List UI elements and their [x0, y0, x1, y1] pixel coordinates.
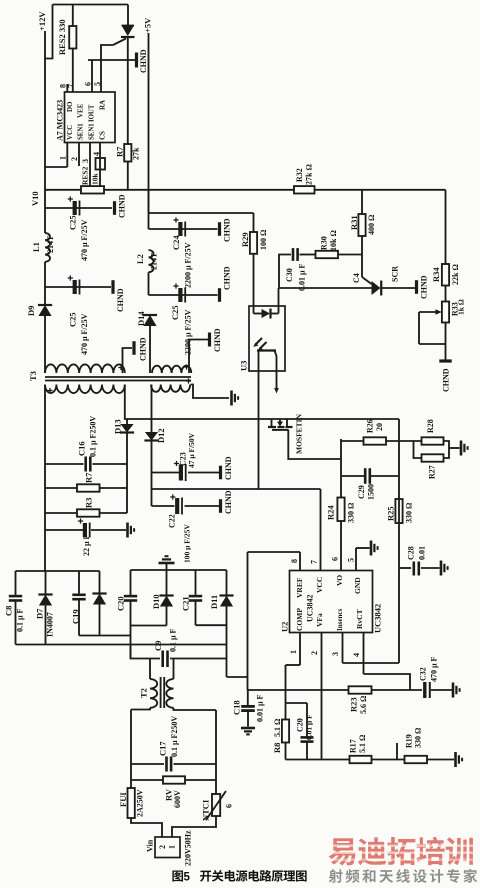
wire winding3 right down: [125, 385, 127, 425]
resistor R7 27k: [115, 144, 141, 162]
svg-text:C9: C9: [153, 641, 163, 651]
svg-text:C8: C8: [4, 606, 14, 616]
wire L1 to C25b node: [44, 262, 46, 305]
pin names bottom row MC3423: [66, 123, 107, 140]
thyristor C4 SCR: [352, 266, 400, 296]
capacitor C19: [71, 595, 86, 624]
wire +12V rail to top rail: [45, 5, 53, 59]
wire input left rail: [130, 710, 132, 789]
svg-text:NTCI: NTCI: [201, 799, 211, 821]
pin 5 UC3842: [346, 548, 369, 571]
opto U3 arrows: [253, 338, 266, 351]
label U2: [280, 622, 290, 632]
transformer T2 right winding: [166, 679, 173, 708]
wire rect top right: [131, 569, 227, 571]
svg-text:20: 20: [375, 423, 384, 431]
transformer T3 winding4: [151, 378, 191, 391]
svg-text:D13: D13: [113, 419, 123, 434]
svg-text:5.1 Ω: 5.1 Ω: [273, 718, 282, 737]
svg-text:C25: C25: [68, 215, 78, 230]
diode D8: [92, 594, 106, 605]
wire T2 left bottom: [131, 708, 150, 710]
pin names bottom row UC3842: [295, 608, 364, 631]
capacitor C25 470uF (top): [68, 196, 89, 261]
capacitor C20 (bridge): [116, 596, 138, 611]
resistor R27: [422, 454, 444, 479]
svg-text:IN4007: IN4007: [45, 612, 54, 637]
thyristor top crowbar: [113, 26, 135, 46]
wire drain to R25 rail: [398, 419, 400, 663]
svg-text:VCC: VCC: [66, 125, 74, 140]
svg-text:7: 7: [309, 560, 318, 564]
capacitor 22uF: [78, 518, 91, 556]
pin 1 UC3842: [289, 633, 300, 666]
svg-text:+12V: +12V: [37, 11, 47, 31]
wire gate lead: [288, 430, 341, 459]
pin 6 number: [83, 82, 92, 86]
wire +5V junction: [148, 190, 150, 213]
svg-text:400 Ω: 400 Ω: [367, 214, 376, 235]
svg-text:D11: D11: [209, 595, 219, 609]
svg-text:1: 1: [58, 156, 67, 160]
svg-text:L2: L2: [135, 254, 145, 264]
wire RES2 330 to pin7: [72, 49, 74, 93]
wire V10 node: [45, 207, 112, 209]
wire C21 stub: [195, 570, 197, 595]
svg-text:22k Ω: 22k Ω: [451, 264, 460, 285]
svg-text:CHND: CHND: [222, 218, 231, 242]
wire C32 to ground: [431, 689, 452, 691]
svg-text:T3: T3: [28, 371, 38, 381]
wire snubber right rail: [126, 464, 128, 513]
resistor R19 330: [404, 727, 427, 763]
svg-text:VREF: VREF: [295, 577, 304, 598]
wire R3 row right: [100, 512, 128, 514]
wire feedback rail left: [45, 189, 81, 191]
pin 4 stub: [92, 143, 105, 187]
svg-text:CHND: CHND: [139, 49, 148, 73]
wire pin4 net: [364, 674, 411, 690]
connector Vin: [145, 830, 192, 866]
resistor R34 22k: [431, 264, 460, 286]
wire C19 stub: [78, 571, 80, 594]
svg-text:U2: U2: [280, 622, 290, 632]
svg-text:U3: U3: [239, 361, 249, 371]
svg-text:L1: L1: [31, 242, 41, 252]
capacitor C21: [181, 596, 203, 611]
wire bus down: [44, 464, 46, 571]
svg-text:C30: C30: [285, 268, 294, 282]
wire C25c node: [149, 294, 218, 296]
svg-text:CHND: CHND: [224, 456, 233, 480]
svg-text:47 μ F/50V: 47 μ F/50V: [187, 432, 196, 468]
wire R7 row: [45, 487, 77, 489]
svg-text:4: 4: [92, 152, 101, 156]
wire top rail: [53, 4, 129, 6]
svg-text:214T: 214T: [46, 235, 55, 253]
pin names top row UC3842: [295, 575, 362, 598]
capacitor C23 47uF/50V: [174, 432, 196, 481]
svg-text:CS: CS: [99, 131, 107, 140]
capacitor C30 0.01uF: [285, 248, 307, 291]
svg-text:T2: T2: [139, 688, 149, 698]
wire R26 left: [341, 440, 364, 442]
wire R31 bottom: [361, 236, 363, 277]
wire R34-R33: [445, 286, 447, 302]
svg-text:0.1 μ F250V: 0.1 μ F250V: [170, 716, 179, 757]
wire aux bottom join: [79, 635, 131, 637]
wire C16 row: [45, 463, 84, 465]
svg-text:330 Ω: 330 Ω: [413, 727, 422, 748]
opto U3 box: [239, 306, 285, 371]
wire R31 top: [361, 190, 363, 214]
wire R7 to rail: [127, 162, 129, 190]
wire T2 right top stub: [173, 659, 175, 680]
svg-text:+5V: +5V: [143, 17, 153, 33]
wire drain net: [127, 418, 399, 420]
svg-text:C25: C25: [170, 305, 180, 320]
svg-text:D14: D14: [136, 311, 146, 326]
wire C30 corner: [279, 255, 291, 289]
resistor R3: [77, 498, 100, 517]
wire R27R28 right join: [444, 441, 450, 458]
wire T2 right bottom: [174, 708, 217, 710]
wire comp net right: [372, 689, 423, 691]
wire gate to pin5: [101, 45, 113, 92]
svg-text:C18: C18: [232, 700, 242, 715]
svg-text:R23: R23: [349, 697, 359, 712]
wire D14 to T3 winding2: [149, 326, 151, 373]
svg-text:SCR: SCR: [390, 266, 399, 282]
svg-text:C25: C25: [68, 312, 78, 327]
wire top rail drop: [127, 5, 129, 26]
transformer T3 label: [28, 371, 38, 381]
svg-text:2A250V: 2A250V: [135, 789, 144, 817]
inductor L2 214T: [135, 250, 158, 272]
ground CHND at C25 top: [115, 194, 127, 218]
svg-text:V10: V10: [30, 191, 40, 206]
resistor R24 330: [326, 498, 356, 524]
potentiometer R33 1k: [419, 299, 466, 344]
wire R19 to ground: [427, 759, 454, 761]
ground CHND top: [137, 49, 148, 73]
wire R8 rail bottom: [285, 743, 287, 760]
pin 7 UC3842: [309, 489, 320, 571]
capacitor C25 2200uF/25V: [170, 283, 192, 355]
svg-text:VO: VO: [335, 575, 344, 586]
pin names top row MC3423: [66, 100, 107, 122]
op-amp U A7 MC3423 box: [65, 92, 116, 143]
transformer T3 winding2: [152, 364, 191, 373]
ground at winding4: [232, 391, 239, 406]
svg-text:7: 7: [66, 84, 75, 88]
ground CHND at C23: [221, 456, 233, 480]
wire NTC to Vin: [172, 816, 216, 837]
op-amp U2 UC3842 box: [290, 571, 373, 633]
resistor R31 400: [349, 214, 376, 236]
diode D10: [151, 594, 174, 609]
wire D7 down: [45, 606, 47, 645]
wire pin6 ground net: [88, 59, 135, 61]
ground CHND at C22: [221, 490, 233, 514]
svg-text:1: 1: [167, 845, 176, 849]
resistor R28: [422, 419, 444, 444]
svg-text:UC3842: UC3842: [305, 594, 314, 622]
wire rect top left: [16, 570, 100, 572]
wire D8 stub: [99, 571, 101, 594]
resistor R7 (snubber): [77, 472, 100, 492]
wire opto cathode net: [279, 287, 372, 289]
svg-text:C16: C16: [77, 441, 87, 456]
wire R8 rail top: [285, 665, 287, 720]
wire VCC net: [152, 488, 321, 490]
wire 22uF row: [45, 529, 84, 531]
svg-text:C23: C23: [178, 452, 187, 466]
transformer T2 core: [161, 677, 165, 708]
wire R29 to U3: [253, 254, 255, 307]
svg-text:VCC: VCC: [315, 577, 324, 593]
svg-text:1500: 1500: [366, 484, 375, 500]
svg-text:214T: 214T: [149, 252, 158, 270]
svg-text:SEN1: SEN1: [77, 123, 84, 140]
svg-text:IOUT: IOUT: [88, 104, 95, 122]
wire RES2 330 top lead: [72, 5, 74, 27]
ground CHND at C25 second: [113, 280, 125, 312]
watermark: [327, 837, 477, 883]
ground CHND at C25c: [220, 266, 232, 302]
wire winding1 right to ground: [123, 348, 133, 373]
svg-text:CHND: CHND: [224, 490, 233, 514]
ground at bridge top: [159, 556, 175, 570]
wire winding2 right to ground: [189, 340, 208, 374]
svg-text:C20: C20: [295, 718, 304, 732]
transformer T2 label: [139, 688, 149, 698]
svg-text:6: 6: [330, 557, 339, 561]
wire R29 feed: [149, 212, 254, 214]
wire bridge neg to C18 rail: [227, 676, 248, 678]
svg-text:COMP: COMP: [295, 608, 304, 631]
wire pin1 to R8: [286, 664, 301, 666]
svg-text:CHND: CHND: [116, 288, 125, 312]
pin 8 UC3842: [290, 552, 300, 571]
capacitor C17 0.1uF250V: [158, 716, 179, 772]
resistor R23 5.6: [349, 686, 372, 714]
svg-text:R7: R7: [84, 472, 94, 483]
wire L2 down: [148, 272, 150, 295]
capacitor C29 1500: [357, 468, 376, 500]
svg-text:RvCT: RvCT: [355, 609, 364, 629]
wire T2 left top stub: [149, 659, 151, 680]
opto U3 transistor: [257, 351, 279, 394]
svg-text:220V50Hz: 220V50Hz: [183, 830, 192, 866]
power label +5V: [143, 17, 153, 33]
node V10: [30, 191, 40, 206]
svg-text:R29: R29: [240, 232, 250, 247]
svg-text:100 μ F/25V: 100 μ F/25V: [183, 524, 192, 563]
svg-text:RES2 330: RES2 330: [57, 19, 67, 55]
svg-text:3: 3: [81, 159, 90, 163]
power label +12V: [37, 11, 47, 31]
svg-text:C20: C20: [116, 596, 126, 611]
svg-text:27k: 27k: [131, 147, 140, 160]
wire D10 stub: [166, 570, 168, 596]
resistor R25 330: [386, 499, 414, 523]
svg-text:R27: R27: [427, 465, 436, 479]
svg-text:0.01 μ F: 0.01 μ F: [305, 714, 314, 740]
resistor RV 600V varistor: [163, 776, 185, 808]
ground at C28: [441, 561, 448, 576]
capacitor C8 0.1uF: [4, 596, 25, 632]
resistor R30 10k: [316, 230, 339, 259]
capacitor C16 0.1uF250V: [77, 416, 98, 472]
svg-text:R28: R28: [426, 419, 435, 433]
pin 5 number: [93, 82, 102, 86]
ground at R27R28: [461, 441, 468, 456]
wire C23 row right: [188, 472, 220, 474]
svg-text:R32: R32: [295, 168, 304, 182]
wire R26 right: [386, 440, 422, 442]
svg-text:10k: 10k: [91, 173, 100, 186]
ground CHND at C24: [220, 218, 232, 242]
wire D11 down: [226, 607, 228, 678]
resistor RES2 10k: [81, 166, 104, 193]
wire R27R28 left join: [414, 441, 422, 458]
svg-text:10k Ω: 10k Ω: [329, 230, 338, 251]
pin 2 stub: [70, 143, 79, 167]
wire C22 row right: [185, 505, 220, 507]
fuse FUI 2A250V: [118, 788, 144, 818]
wire R17-R19 net: [372, 759, 405, 761]
svg-text:R34: R34: [431, 267, 441, 282]
transformer T3 winding3: [45, 385, 125, 394]
resistor R29 100: [240, 229, 268, 254]
wire RV row left: [131, 779, 163, 781]
wire bottom bus: [16, 644, 227, 646]
label UC3842 inside: [305, 594, 314, 622]
diode D13: [113, 419, 135, 434]
ground CHND at SCR: [417, 275, 429, 299]
wire C29 right: [370, 475, 399, 477]
svg-text:R31: R31: [349, 215, 359, 230]
svg-text:2200 μ F/25V: 2200 μ F/25V: [183, 242, 192, 288]
ground CHND winding1: [134, 337, 147, 361]
capacitor C20 0.01uF: [286, 703, 314, 760]
wire R33 to ground: [445, 323, 447, 361]
wire pin6 stub: [91, 60, 93, 92]
svg-text:D12: D12: [156, 428, 166, 443]
wire C8 stub: [15, 571, 17, 595]
wire SCR cathode down: [127, 37, 129, 144]
wire to ground R28: [449, 447, 460, 449]
wire R29 rail: [253, 213, 255, 232]
wire R24 to pin6: [340, 521, 342, 571]
capacitor C24 2200uF/25V: [171, 217, 192, 288]
wire C17 row right: [174, 763, 217, 765]
inductor L1 214T: [31, 233, 55, 262]
svg-text:470 μ F: 470 μ F: [429, 656, 438, 682]
svg-text:2: 2: [310, 651, 319, 655]
wire C20b stub: [130, 570, 132, 595]
svg-text:CHND: CHND: [213, 328, 222, 352]
svg-text:27k Ω: 27k Ω: [304, 164, 313, 185]
capacitor C28 0.01: [399, 546, 440, 576]
wire RV row right: [185, 779, 216, 781]
svg-text:C17: C17: [158, 741, 168, 756]
pin 6 UC3842: [330, 557, 339, 561]
wire C17 row left: [131, 763, 164, 765]
ground at pin5: [371, 541, 378, 556]
svg-text:C4: C4: [352, 273, 361, 283]
resistor R26 20: [364, 419, 387, 444]
capacitor C18 0.01uF: [232, 690, 265, 734]
svg-text:3: 3: [331, 652, 340, 656]
node stub: [396, 743, 398, 760]
svg-text:VEE: VEE: [77, 103, 85, 118]
svg-text:R7: R7: [115, 146, 125, 157]
wire input right rail: [215, 710, 217, 794]
svg-text:CHND: CHND: [117, 194, 126, 218]
wire C24 node: [149, 228, 218, 230]
svg-text:MOSFETIN: MOSFETIN: [295, 413, 304, 454]
svg-text:R26: R26: [365, 419, 374, 433]
ground CHND winding2: [210, 328, 222, 352]
wire opto cathode rail: [278, 288, 280, 306]
wire C20b down: [130, 602, 132, 659]
pin 2 UC3842: [310, 633, 322, 760]
svg-text:470 μ F/25V: 470 μ F/25V: [80, 313, 89, 355]
svg-text:0.1 μ F: 0.1 μ F: [168, 628, 177, 652]
ground at R19: [456, 752, 463, 767]
wire C20-D10 join: [131, 625, 167, 627]
svg-text:0.01: 0.01: [417, 546, 426, 560]
svg-text:470 μ F/25V: 470 μ F/25V: [80, 219, 89, 261]
svg-text:1k Ω: 1k Ω: [457, 299, 466, 315]
svg-text:6: 6: [83, 82, 92, 86]
svg-text:VFa: VFa: [315, 613, 324, 627]
svg-text:C28: C28: [406, 546, 415, 560]
svg-text:R25: R25: [386, 506, 396, 521]
transformer T3 core: [45, 377, 191, 381]
wire bottom net: [286, 759, 350, 761]
svg-text:FUI: FUI: [118, 792, 128, 807]
diode D12: [144, 428, 166, 443]
svg-text:0.1 μ F: 0.1 μ F: [15, 608, 24, 632]
svg-text:22 μ F: 22 μ F: [82, 534, 91, 556]
wire D12 down: [151, 441, 153, 507]
svg-text:2: 2: [70, 157, 79, 161]
svg-text:SEN1: SEN1: [88, 123, 95, 140]
svg-text:R19: R19: [404, 734, 413, 748]
wire 22uF to ground: [91, 529, 126, 531]
svg-text:R8: R8: [272, 743, 282, 753]
wire feedback rail: [104, 189, 294, 191]
wire C16 row right: [93, 463, 128, 465]
svg-text:330 Ω: 330 Ω: [346, 502, 355, 523]
diode D14: [136, 311, 157, 326]
thermistor NTCI: [201, 791, 234, 821]
pin 8 stub MC3423: [58, 84, 67, 92]
wire C25b node: [45, 286, 111, 288]
svg-text:C21: C21: [181, 596, 191, 611]
diode D7 IN4007: [35, 595, 55, 638]
wire D13 to snubber: [126, 433, 128, 465]
wire R34 rail: [445, 190, 447, 264]
capacitor C22 100uF/25V: [167, 494, 191, 563]
wire C22 row: [152, 505, 175, 507]
caption figure 5: [172, 870, 306, 884]
svg-text:0.01 μ F: 0.01 μ F: [255, 694, 264, 722]
svg-text:CHND: CHND: [138, 337, 147, 361]
